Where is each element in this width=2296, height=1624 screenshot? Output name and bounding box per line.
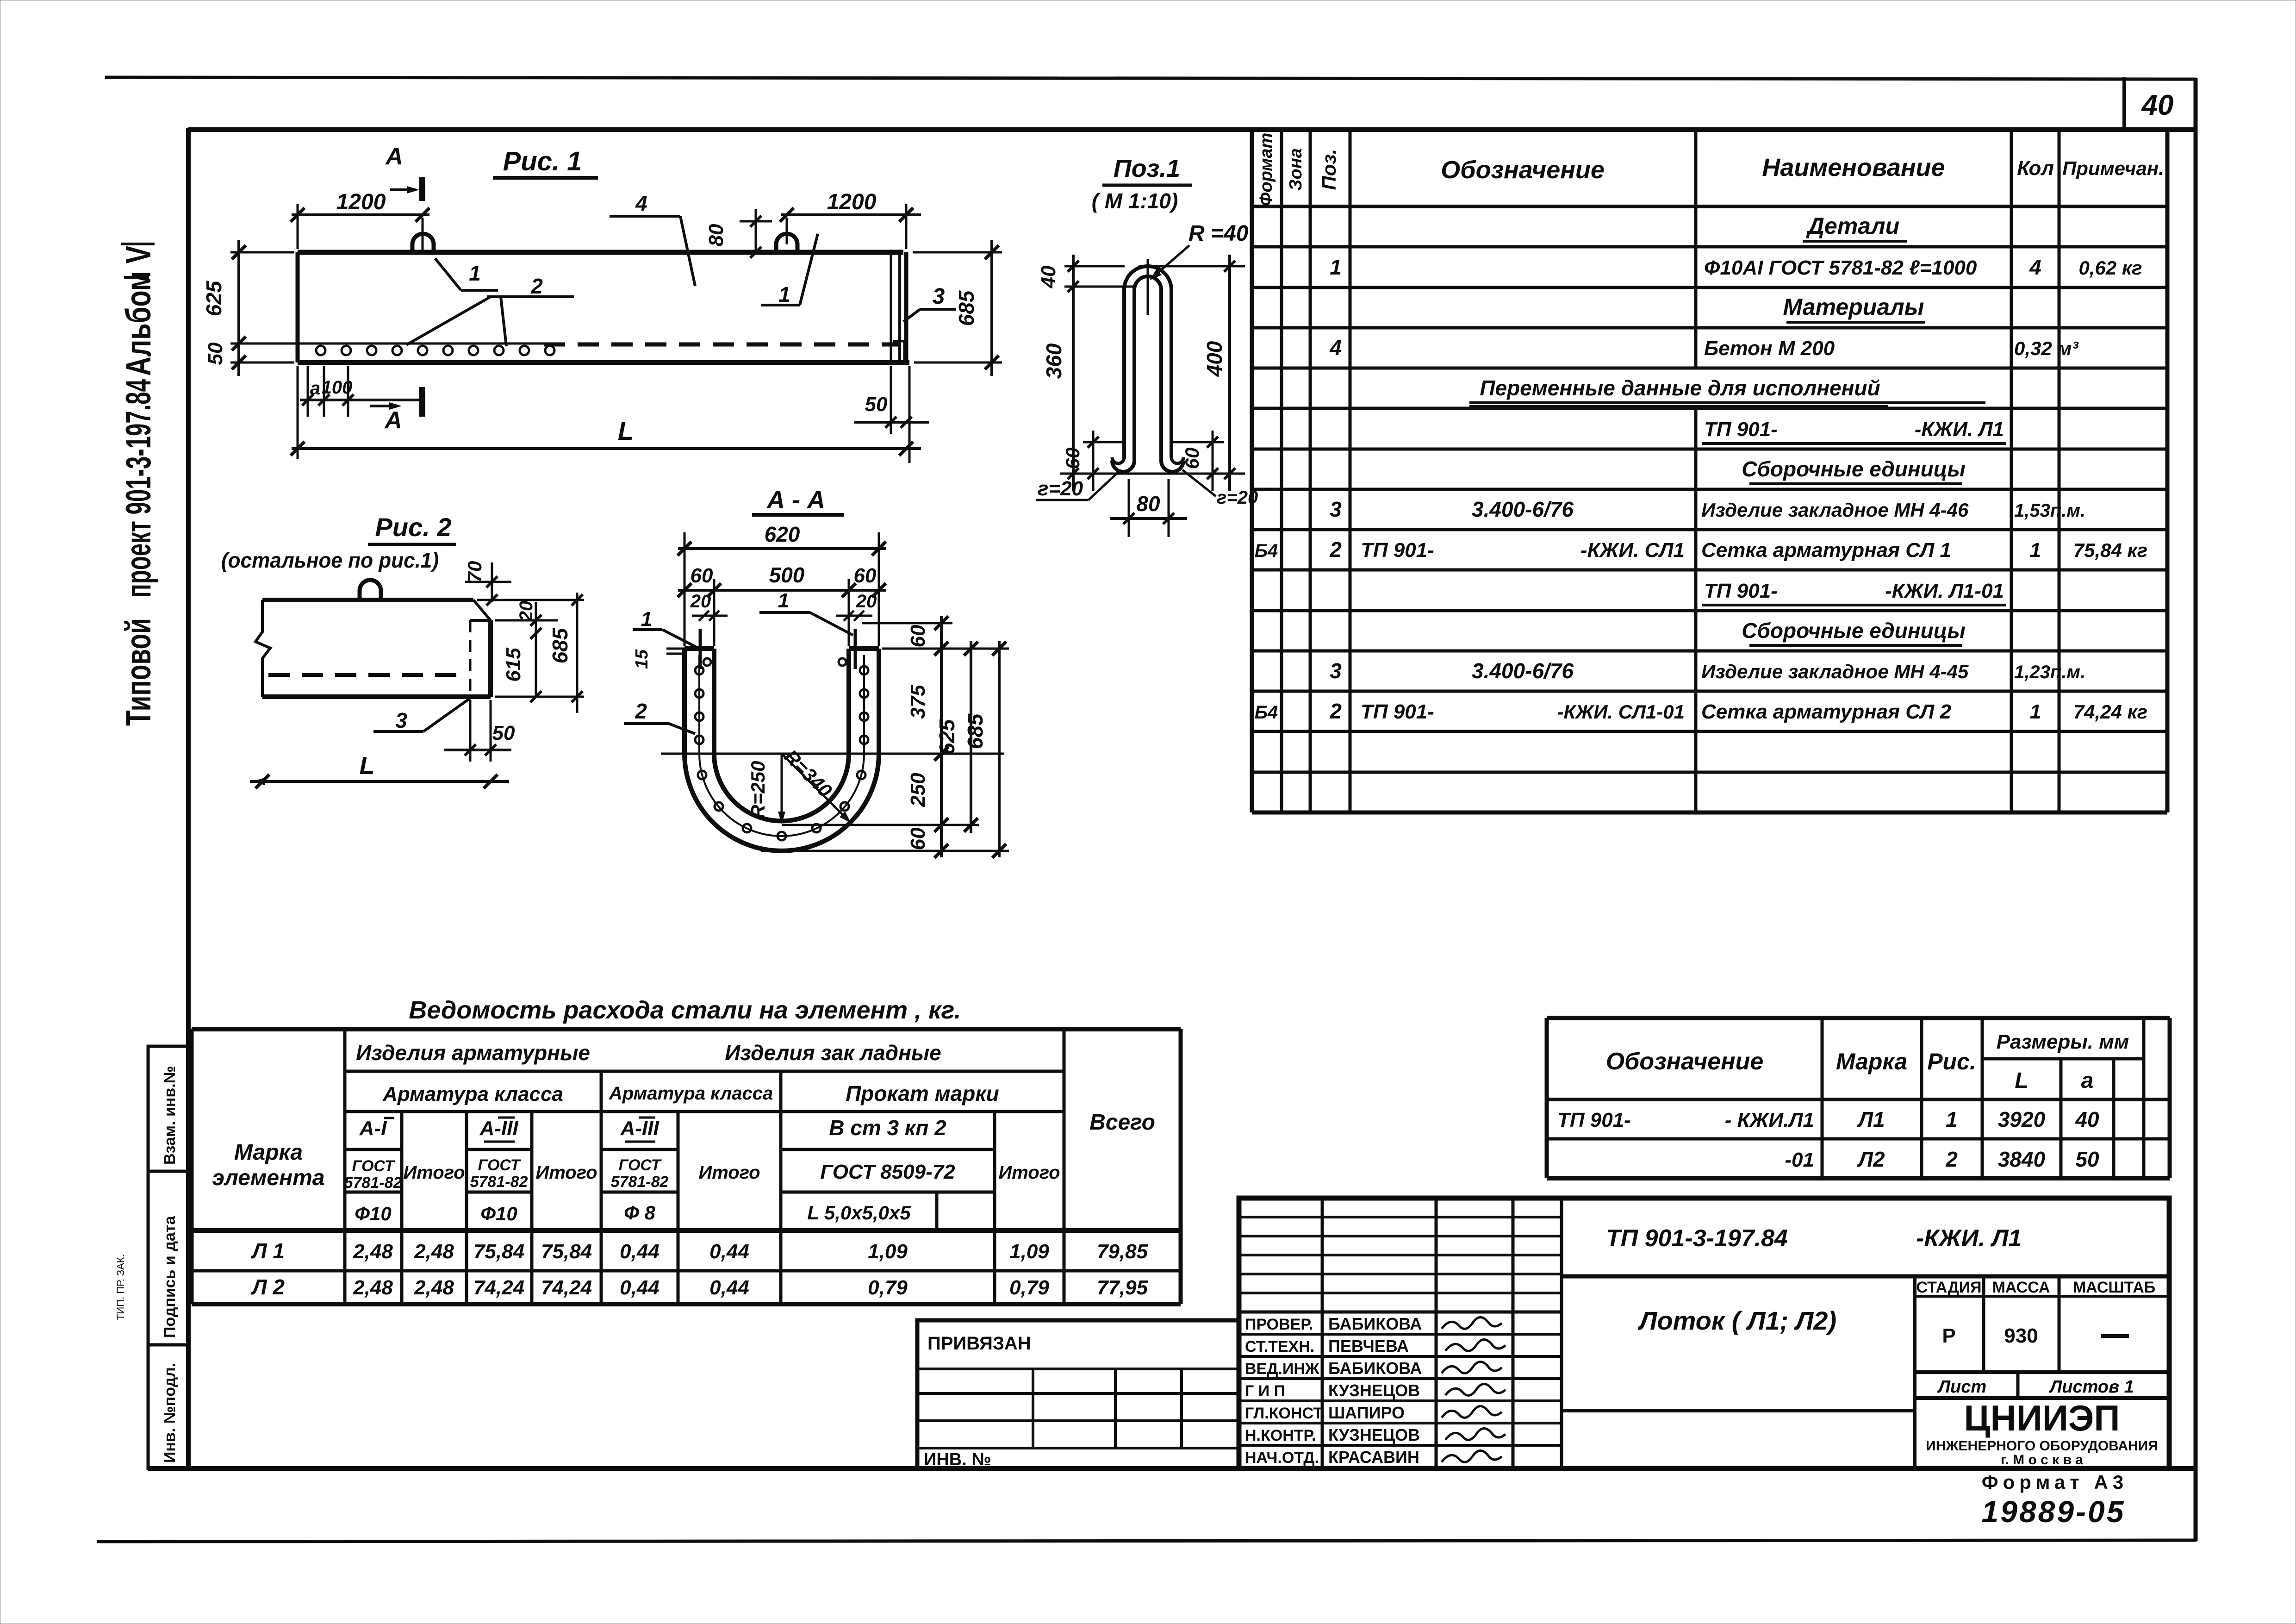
svg-text:3840: 3840 xyxy=(1998,1147,2046,1171)
svg-text:Поз.: Поз. xyxy=(1318,149,1340,190)
svg-text:1: 1 xyxy=(469,261,481,285)
figure Ris.2 title xyxy=(221,512,456,572)
detail Poz.1 title xyxy=(1092,155,1192,213)
svg-text:2,48: 2,48 xyxy=(414,1240,454,1263)
svg-text:5781-82: 5781-82 xyxy=(611,1173,669,1191)
svg-text:ТП 901-: ТП 901- xyxy=(1704,580,1778,602)
svg-text:ПЕВЧЕВА: ПЕВЧЕВА xyxy=(1328,1337,1409,1355)
svg-text:г=20: г=20 xyxy=(1038,477,1083,500)
svg-text:Подпись и дата: Подпись и дата xyxy=(161,1215,179,1338)
svg-text:Поз.1: Поз.1 xyxy=(1114,155,1180,182)
svg-text:Альбом V: Альбом V xyxy=(119,246,158,376)
svg-text:Типовой: Типовой xyxy=(119,618,158,726)
svg-text:2: 2 xyxy=(635,699,647,723)
svg-text:Сетка арматурная СЛ 2: Сетка арматурная СЛ 2 xyxy=(1701,700,1951,723)
svg-text:L: L xyxy=(618,416,634,445)
format note below frame xyxy=(1982,1471,2128,1529)
svg-text:1: 1 xyxy=(778,589,789,612)
svg-text:а: а xyxy=(2081,1068,2094,1093)
svg-text:20: 20 xyxy=(690,591,711,612)
svg-text:70: 70 xyxy=(464,561,485,583)
svg-text:74,24: 74,24 xyxy=(473,1276,524,1299)
Ris.1 dimension 80 right loop xyxy=(705,209,772,258)
svg-text:А - А: А - А xyxy=(766,486,825,514)
svg-text:1: 1 xyxy=(778,282,790,306)
svg-text:1,09: 1,09 xyxy=(868,1240,908,1263)
svg-text:В ст 3 кп 2: В ст 3 кп 2 xyxy=(829,1116,946,1140)
sheet right edge line xyxy=(2194,78,2198,1541)
svg-text:0,44: 0,44 xyxy=(709,1240,749,1263)
svg-text:А-III: А-III xyxy=(620,1117,659,1140)
svg-text:-КЖИ. СЛ1: -КЖИ. СЛ1 xyxy=(1580,539,1685,562)
svg-text:Марка: Марка xyxy=(1836,1049,1907,1074)
svg-text:проект 901-3-197.84: проект 901-3-197.84 xyxy=(119,379,158,598)
svg-text:Л2: Л2 xyxy=(1857,1147,1885,1171)
svg-text:R =40: R =40 xyxy=(1188,221,1249,246)
svg-text:ГОСТ: ГОСТ xyxy=(619,1156,662,1174)
sheet bottom edge line xyxy=(97,1540,2196,1542)
svg-text:Материалы: Материалы xyxy=(1783,294,1924,320)
svg-text:Итого: Итого xyxy=(535,1162,597,1183)
A-A extension lines xyxy=(661,623,1009,851)
svg-text:60: 60 xyxy=(907,827,929,850)
Ris.1 label 2 xyxy=(406,274,574,346)
svg-text:ГОСТ: ГОСТ xyxy=(478,1156,522,1174)
svg-text:БАБИКОВА: БАБИКОВА xyxy=(1328,1359,1422,1378)
Ris.1 dimensions 625 and 50 left xyxy=(202,240,296,376)
svg-text:ПРОВЕР.: ПРОВЕР. xyxy=(1245,1316,1313,1333)
svg-text:60: 60 xyxy=(854,564,877,587)
svg-text:Марка: Марка xyxy=(234,1140,303,1165)
svg-text:74,24: 74,24 xyxy=(541,1276,592,1299)
svg-text:50: 50 xyxy=(2075,1147,2099,1171)
svg-text:Изделия зак ладные: Изделия зак ладные xyxy=(725,1041,941,1065)
svg-text:625: 625 xyxy=(935,718,959,755)
Ris.1 label 4 xyxy=(610,191,695,286)
svg-text:МАСШТАБ: МАСШТАБ xyxy=(2073,1279,2155,1296)
svg-text:Размеры. мм: Размеры. мм xyxy=(1997,1031,2129,1053)
svg-text:(остальное по рис.1): (остальное по рис.1) xyxy=(221,548,439,572)
svg-text:г=20: г=20 xyxy=(1217,487,1258,508)
svg-text:50: 50 xyxy=(492,722,515,744)
Ris.1 lifting loop right xyxy=(776,218,797,254)
svg-text:ЦНИИЭП: ЦНИИЭП xyxy=(1964,1398,2120,1438)
svg-text:60: 60 xyxy=(907,625,929,647)
svg-text:Обозначение: Обозначение xyxy=(1606,1048,1764,1075)
svg-text:75,84 кг: 75,84 кг xyxy=(2073,539,2147,561)
Poz.1 label r=20 left xyxy=(1036,472,1118,500)
Poz.1 U-bar xyxy=(1112,259,1183,472)
figure Ris.1 title xyxy=(493,146,598,178)
left margin vertical caption xyxy=(119,244,158,726)
svg-text:50: 50 xyxy=(865,393,888,416)
svg-text:R=250: R=250 xyxy=(747,761,769,819)
svg-text:ИНЖЕНЕРНОГО ОБОРУДОВАНИЯ: ИНЖЕНЕРНОГО ОБОРУДОВАНИЯ xyxy=(1926,1438,2158,1454)
svg-text:Ф 8: Ф 8 xyxy=(624,1202,655,1224)
svg-text:Ф10: Ф10 xyxy=(355,1203,392,1224)
Ris.2 label 3 xyxy=(373,698,470,732)
svg-text:60: 60 xyxy=(1181,448,1203,469)
svg-text:80: 80 xyxy=(705,224,728,246)
svg-text:0,79: 0,79 xyxy=(868,1276,908,1299)
svg-text:Изделия арматурные: Изделия арматурные xyxy=(356,1041,590,1065)
svg-text:80: 80 xyxy=(1136,492,1160,516)
Ris.2 dashed centerline xyxy=(268,673,467,677)
svg-text:77,95: 77,95 xyxy=(1097,1276,1148,1299)
svg-text:930: 930 xyxy=(2004,1324,2038,1347)
svg-text:75,84: 75,84 xyxy=(541,1240,592,1263)
Ris.2 dimension 685 xyxy=(477,593,584,713)
Ris.2 lifting loop xyxy=(360,580,381,600)
svg-text:КУЗНЕЦОВ: КУЗНЕЦОВ xyxy=(1328,1425,1420,1444)
Poz.1 bottom extension xyxy=(1060,473,1245,475)
Ris.1 beam outline xyxy=(298,252,909,362)
svg-text:Сетка арматурная СЛ 1: Сетка арматурная СЛ 1 xyxy=(1701,539,1951,562)
specification table xyxy=(1252,130,2167,812)
svg-text:Ведомость расхода стали на: Ведомость расхода стали на элемент , кг. xyxy=(409,996,961,1024)
A-A hairpin bars at wall tops xyxy=(700,629,855,669)
svg-text:Л 2: Л 2 xyxy=(251,1275,285,1299)
svg-text:3.400-6/76: 3.400-6/76 xyxy=(1472,497,1574,521)
svg-text:3: 3 xyxy=(1330,497,1342,521)
svg-text:Рис. 2: Рис. 2 xyxy=(375,512,452,542)
A-A dimension 620 xyxy=(678,522,886,646)
svg-text:Переменные данные для испол: Переменные данные для исполнений xyxy=(1480,376,1880,400)
svg-text:0,32 м³: 0,32 м³ xyxy=(2014,337,2078,359)
svg-text:1200: 1200 xyxy=(827,190,877,214)
Ris.1 section mark A bottom xyxy=(370,387,422,434)
svg-text:40: 40 xyxy=(1037,265,1060,288)
svg-text:Ф10: Ф10 xyxy=(480,1203,517,1224)
svg-text:60: 60 xyxy=(691,564,713,587)
svg-text:ГОСТ: ГОСТ xyxy=(352,1157,396,1175)
A-A label 1 center xyxy=(759,589,853,635)
svg-text:0,44: 0,44 xyxy=(620,1240,660,1263)
svg-text:г. М о с к в а: г. М о с к в а xyxy=(2001,1452,2083,1468)
svg-text:ПРИВЯЗАН: ПРИВЯЗАН xyxy=(927,1333,1031,1354)
svg-text:Обозначение: Обозначение xyxy=(1441,156,1605,184)
svg-text:Итого: Итого xyxy=(698,1162,760,1183)
svg-text:74,24 кг: 74,24 кг xyxy=(2073,701,2147,723)
Ris.2 dimension 615 xyxy=(502,648,541,702)
svg-text:685: 685 xyxy=(548,627,572,663)
svg-text:Прокат марки: Прокат марки xyxy=(846,1081,999,1106)
svg-text:Зона: Зона xyxy=(1286,148,1306,191)
svg-text:2: 2 xyxy=(1329,699,1342,723)
svg-text:НАЧ.ОТД.: НАЧ.ОТД. xyxy=(1245,1449,1319,1467)
Ris.1 label 1 right xyxy=(761,234,818,306)
svg-text:375: 375 xyxy=(907,685,929,719)
svg-text:L: L xyxy=(360,752,375,780)
Ris.2 embedded plate dashed xyxy=(470,620,491,697)
A-A dimension 685 xyxy=(963,641,1006,858)
A-A radius R=250 xyxy=(747,754,785,824)
svg-text:1: 1 xyxy=(641,608,652,631)
svg-text:Изделие закладное МН 4-46: Изделие закладное МН 4-46 xyxy=(1701,499,1969,521)
svg-text:0,62 кг: 0,62 кг xyxy=(2078,257,2142,279)
A-A trough walls xyxy=(684,649,879,851)
svg-text:1,09: 1,09 xyxy=(1009,1240,1049,1263)
svg-text:Формат: Формат xyxy=(1257,133,1276,206)
svg-text:2,48: 2,48 xyxy=(353,1276,393,1299)
svg-text:20: 20 xyxy=(516,601,536,622)
Poz.1 dimension 400 xyxy=(1139,255,1245,491)
svg-text:а: а xyxy=(310,378,320,399)
svg-text:Б4: Б4 xyxy=(1255,702,1278,723)
svg-text:79,85: 79,85 xyxy=(1097,1240,1148,1263)
svg-text:Ф10АI ГОСТ 5781-82 ℓ=1000: Ф10АI ГОСТ 5781-82 ℓ=1000 xyxy=(1704,256,1977,279)
svg-text:685: 685 xyxy=(963,713,987,749)
Ris.1 section mark A top xyxy=(385,143,422,201)
svg-text:Р: Р xyxy=(1942,1324,1955,1347)
Ris.1 slab line with mesh circles xyxy=(298,344,560,355)
svg-text:Бетон М 200: Бетон М 200 xyxy=(1704,337,1835,360)
svg-text:-КЖИ. СЛ1-01: -КЖИ. СЛ1-01 xyxy=(1557,701,1685,723)
svg-text:3: 3 xyxy=(933,284,945,309)
svg-text:625: 625 xyxy=(202,280,226,316)
svg-text:Л1: Л1 xyxy=(1857,1107,1885,1131)
Ris.2 dimension 70 xyxy=(464,561,511,606)
svg-text:0,79: 0,79 xyxy=(1009,1276,1049,1299)
svg-text:А: А xyxy=(384,407,402,434)
svg-text:2,48: 2,48 xyxy=(414,1276,454,1299)
A-A dimension 15 xyxy=(632,649,685,669)
svg-text:СТАДИЯ: СТАДИЯ xyxy=(1916,1279,1981,1296)
svg-text:0,44: 0,44 xyxy=(709,1276,749,1299)
svg-text:3920: 3920 xyxy=(1998,1107,2046,1131)
privyazan box xyxy=(917,1320,1239,1469)
svg-text:40: 40 xyxy=(2075,1107,2099,1131)
svg-text:ШАПИРО: ШАПИРО xyxy=(1328,1403,1405,1422)
Ris.1 label 3 right xyxy=(903,284,956,322)
Ris.1 dimension L xyxy=(291,366,921,459)
svg-text:ТП 901-: ТП 901- xyxy=(1361,539,1434,562)
svg-text:40: 40 xyxy=(2141,89,2174,121)
svg-text:1,23п.м.: 1,23п.м. xyxy=(2014,662,2085,682)
svg-text:3: 3 xyxy=(395,708,407,732)
svg-text:5781-82: 5781-82 xyxy=(344,1174,402,1192)
svg-text:1200: 1200 xyxy=(336,190,386,214)
svg-text:Взам. инв.№: Взам. инв.№ xyxy=(161,1066,179,1165)
svg-text:360: 360 xyxy=(1042,343,1066,379)
svg-text:685: 685 xyxy=(954,290,978,326)
svg-text:- КЖИ.Л1: - КЖИ.Л1 xyxy=(1725,1109,1814,1131)
page number box 40 xyxy=(2124,77,2173,130)
svg-text:15: 15 xyxy=(632,649,652,669)
A-A dimensions 60 375 250 60 xyxy=(907,616,948,858)
section A-A title xyxy=(752,486,844,515)
svg-text:5781-82: 5781-82 xyxy=(470,1173,528,1191)
svg-text:-01: -01 xyxy=(1785,1149,1814,1171)
svg-text:1: 1 xyxy=(2030,539,2041,562)
A-A dimension 625 xyxy=(935,641,978,833)
main drawing frame xyxy=(148,128,2196,1468)
Ris.1 dimension 685 right xyxy=(913,240,1002,376)
svg-text:Г И П: Г И П xyxy=(1245,1382,1285,1400)
svg-text:620: 620 xyxy=(765,522,800,546)
svg-text:Н.КОНТР.: Н.КОНТР. xyxy=(1245,1427,1316,1444)
svg-text:250: 250 xyxy=(907,773,929,807)
svg-text:Итого: Итого xyxy=(998,1162,1060,1183)
svg-text:Всего: Всего xyxy=(1089,1110,1155,1135)
element size table xyxy=(1547,1018,2170,1178)
Ris.1 dashed axis line xyxy=(544,343,898,347)
svg-text:2: 2 xyxy=(1329,537,1342,562)
Poz.1 dimensions 40 and 360 xyxy=(1037,255,1135,491)
svg-text:1: 1 xyxy=(1330,255,1342,279)
svg-text:Сборочные единицы: Сборочные единицы xyxy=(1742,618,1966,643)
svg-text:( М 1:10): ( М 1:10) xyxy=(1092,189,1178,213)
Ris.2 dimension 50 xyxy=(444,700,515,762)
left margin boxes xyxy=(148,1046,188,1468)
svg-text:Арматура класса: Арматура класса xyxy=(382,1083,563,1106)
Poz.1 dimension 60 left xyxy=(1062,431,1125,491)
svg-text:1,53п.м.: 1,53п.м. xyxy=(2014,500,2085,521)
svg-text:ВЕД.ИНЖ: ВЕД.ИНЖ xyxy=(1245,1360,1319,1378)
svg-text:Лист: Лист xyxy=(1937,1377,1986,1397)
svg-text:А-III: А-III xyxy=(479,1117,518,1140)
svg-text:МАССА: МАССА xyxy=(1992,1279,2050,1296)
svg-text:Рис. 1: Рис. 1 xyxy=(503,146,582,176)
Ris.1 embedded end plate xyxy=(891,252,906,362)
Ris.2 dimension 20 xyxy=(495,601,558,697)
Ris.1 label 1 left xyxy=(435,258,498,290)
Poz.1 dimension 60 right xyxy=(1171,431,1224,491)
svg-text:19889-05: 19889-05 xyxy=(1982,1494,2126,1529)
svg-text:20: 20 xyxy=(856,591,877,612)
Poz.1 label R=40 xyxy=(1150,221,1249,280)
svg-text:ГЛ.КОНСТ.: ГЛ.КОНСТ. xyxy=(1245,1405,1325,1422)
svg-text:Б4: Б4 xyxy=(1255,541,1278,561)
svg-text:L: L xyxy=(2015,1068,2028,1093)
svg-text:БАБИКОВА: БАБИКОВА xyxy=(1328,1314,1422,1333)
svg-text:Л 1: Л 1 xyxy=(251,1239,285,1263)
svg-text:2: 2 xyxy=(530,274,543,298)
Ris.1 dimension 1200 left xyxy=(291,190,429,249)
svg-text:ТИП. ПР. ЗАК.: ТИП. ПР. ЗАК. xyxy=(115,1254,126,1320)
svg-text:2: 2 xyxy=(1945,1147,1958,1171)
svg-text:L 5,0х5,0х5: L 5,0х5,0х5 xyxy=(807,1202,911,1224)
svg-text:Кол: Кол xyxy=(2017,157,2054,180)
svg-text:Лоток ( Л1; Л2): Лоток ( Л1; Л2) xyxy=(1637,1306,1836,1335)
svg-text:Примечан.: Примечан. xyxy=(2062,157,2164,179)
A-A label 1 left xyxy=(633,608,697,647)
svg-text:2,48: 2,48 xyxy=(353,1240,393,1263)
A-A dimensions 60 500 60 xyxy=(678,563,886,646)
svg-text:0,44: 0,44 xyxy=(620,1276,660,1299)
title block xyxy=(1239,1198,2169,1468)
svg-text:Арматура класса: Арматура класса xyxy=(609,1083,773,1104)
svg-text:ТП 901-3-197.84: ТП 901-3-197.84 xyxy=(1606,1225,1788,1252)
svg-text:А: А xyxy=(385,143,403,170)
svg-text:100: 100 xyxy=(322,377,353,398)
steel consumption table xyxy=(192,996,1181,1304)
svg-text:А-I: А-I xyxy=(359,1117,387,1140)
Ris.1 dimensions a and 100 bottom left xyxy=(300,366,419,417)
svg-text:Изделие закладное МН 4-45: Изделие закладное МН 4-45 xyxy=(1701,661,1969,682)
Ris.2 dimension L xyxy=(250,752,509,788)
A-A mesh midline with rebar circles xyxy=(695,655,868,840)
A-A dimensions 20 20 xyxy=(690,591,877,621)
svg-text:КУЗНЕЦОВ: КУЗНЕЦОВ xyxy=(1328,1381,1420,1400)
svg-text:ТП 901-: ТП 901- xyxy=(1361,700,1434,723)
svg-text:ТП 901-: ТП 901- xyxy=(1704,418,1778,441)
svg-text:1: 1 xyxy=(1946,1107,1958,1131)
Ris.1 dimension 50 right bottom xyxy=(854,366,929,463)
svg-text:Итого: Итого xyxy=(403,1162,465,1183)
svg-text:Листов 1: Листов 1 xyxy=(2048,1377,2134,1397)
Ris.1 dimension 1200 right xyxy=(780,190,921,249)
svg-text:Детали: Детали xyxy=(1806,213,1899,239)
svg-text:3: 3 xyxy=(1330,659,1342,683)
svg-text:50: 50 xyxy=(204,342,227,365)
sheet top edge line xyxy=(105,77,2196,79)
svg-text:4: 4 xyxy=(635,191,647,215)
svg-text:4: 4 xyxy=(1329,336,1342,360)
svg-text:Инв. №подл.: Инв. №подл. xyxy=(161,1363,179,1463)
Ris.2 beam outline with break xyxy=(255,600,491,697)
Ris.1 lifting loop left xyxy=(412,218,434,254)
svg-text:элемента: элемента xyxy=(212,1166,325,1190)
svg-text:500: 500 xyxy=(769,563,805,587)
svg-text:Наименование: Наименование xyxy=(1762,154,1945,181)
svg-text:ИНВ. №: ИНВ. № xyxy=(924,1450,991,1469)
faint marginal stamp text xyxy=(115,1254,126,1320)
svg-text:400: 400 xyxy=(1202,341,1226,377)
svg-text:СТ.ТЕХН.: СТ.ТЕХН. xyxy=(1245,1338,1314,1355)
svg-text:Рис.: Рис. xyxy=(1927,1049,1976,1074)
svg-text:КРАСАВИН: КРАСАВИН xyxy=(1328,1448,1419,1467)
svg-text:-КЖИ. Л1-01: -КЖИ. Л1-01 xyxy=(1885,580,2004,602)
svg-text:615: 615 xyxy=(502,648,525,682)
svg-text:-КЖИ. Л1: -КЖИ. Л1 xyxy=(1915,418,2004,441)
svg-text:4: 4 xyxy=(2029,255,2041,279)
svg-text:1: 1 xyxy=(2030,700,2041,723)
svg-text:-КЖИ. Л1: -КЖИ. Л1 xyxy=(1916,1225,2022,1252)
svg-text:Формат А3: Формат А3 xyxy=(1982,1471,2128,1493)
A-A radius R=310 xyxy=(780,745,851,823)
svg-text:3.400-6/76: 3.400-6/76 xyxy=(1472,659,1574,683)
svg-text:Сборочные единицы: Сборочные единицы xyxy=(1742,457,1966,481)
svg-text:75,84: 75,84 xyxy=(473,1240,524,1263)
Poz.1 label r=20 right xyxy=(1182,470,1258,508)
Poz.1 dimension 80 xyxy=(1110,479,1187,537)
A-A label 2 xyxy=(624,699,695,734)
svg-text:ГОСТ 8509-72: ГОСТ 8509-72 xyxy=(820,1161,955,1183)
svg-text:ТП 901-: ТП 901- xyxy=(1557,1109,1631,1131)
svg-text:60: 60 xyxy=(1062,448,1083,469)
